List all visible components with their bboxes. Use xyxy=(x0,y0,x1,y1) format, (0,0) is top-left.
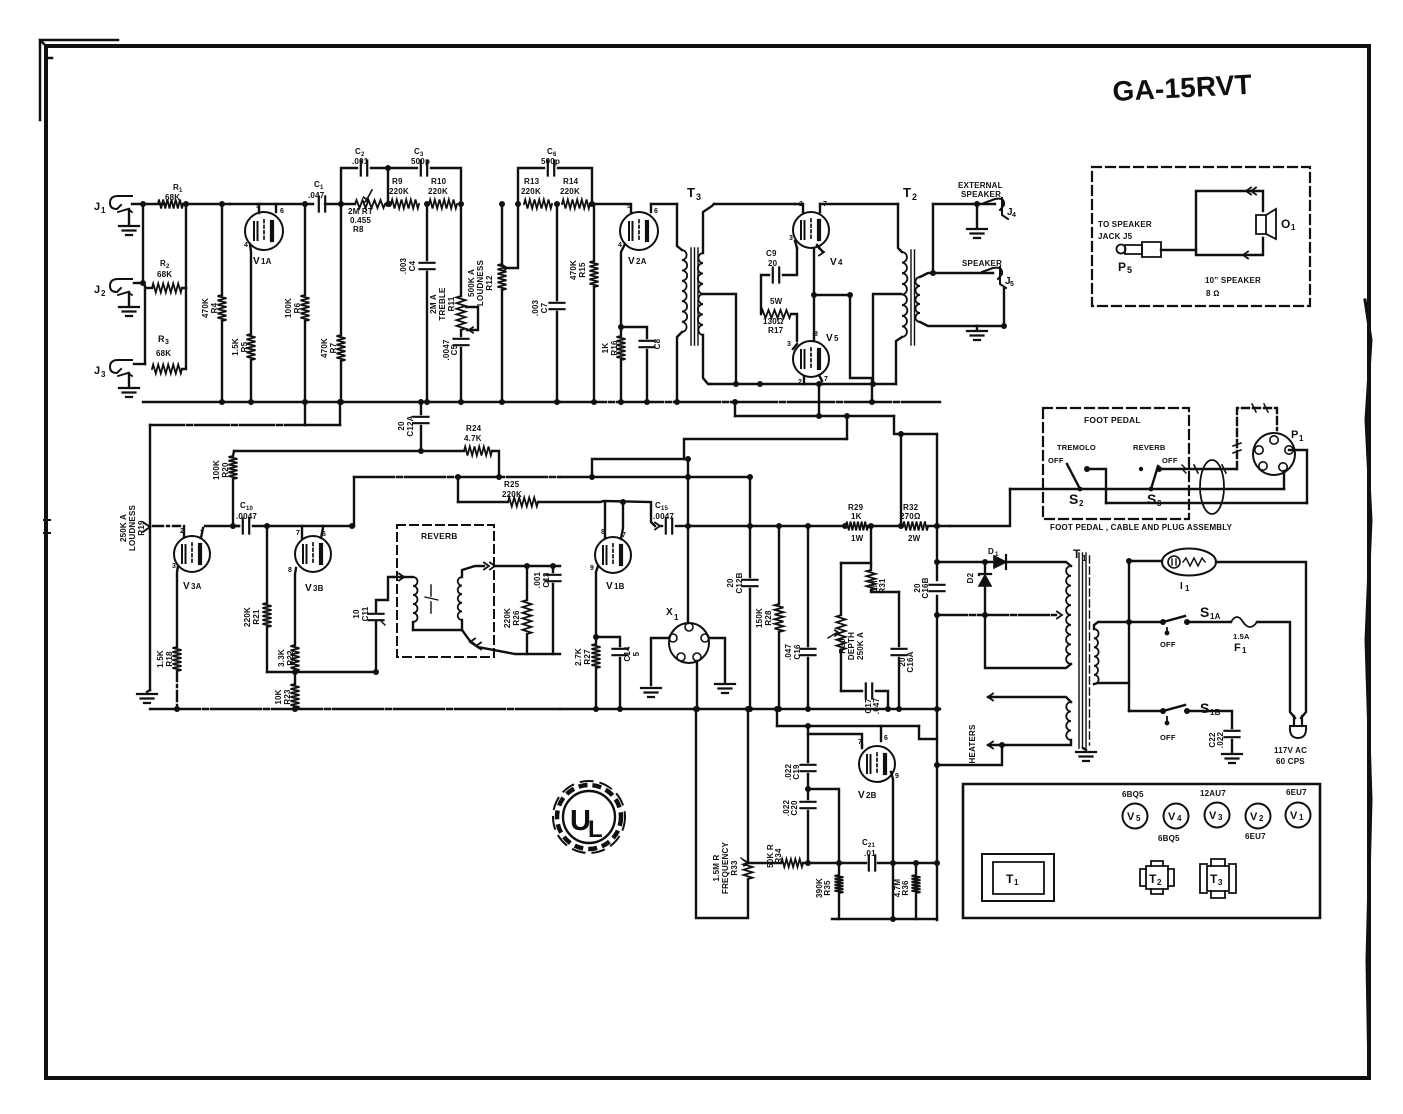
svg-text:250K A: 250K A xyxy=(856,632,865,660)
svg-text:2.7K: 2.7K xyxy=(574,648,583,666)
svg-text:D2: D2 xyxy=(966,572,975,583)
wire xyxy=(832,918,937,920)
label 10in speaker xyxy=(1205,276,1261,298)
svg-text:9: 9 xyxy=(895,773,899,780)
label off xyxy=(1162,456,1178,465)
svg-text:5: 5 xyxy=(834,334,839,343)
label heaters xyxy=(968,724,977,763)
wire xyxy=(1283,471,1285,489)
wire xyxy=(937,745,1002,765)
jack J5 xyxy=(982,267,1014,288)
resistor R23 xyxy=(274,671,300,712)
wire plate feed xyxy=(688,525,750,527)
svg-text:1: 1 xyxy=(1014,878,1019,887)
svg-text:C11: C11 xyxy=(361,606,370,621)
label foot pedal xyxy=(1084,415,1141,425)
svg-text:68K: 68K xyxy=(165,193,180,202)
label V2B xyxy=(0,0,1,1)
capacitor C16B xyxy=(913,577,945,598)
svg-text:V: V xyxy=(1209,810,1217,822)
resistor R5 xyxy=(231,334,256,360)
plug P5 xyxy=(1117,242,1162,275)
pin 9 xyxy=(890,772,899,922)
svg-text:7: 7 xyxy=(824,376,828,383)
reverb out top xyxy=(462,563,560,578)
pin 2 xyxy=(798,377,804,386)
wire T2 secondary top xyxy=(920,270,936,277)
triode V2A xyxy=(620,212,658,267)
svg-text:470K: 470K xyxy=(201,298,210,318)
ground xyxy=(1076,748,1096,761)
svg-text:20: 20 xyxy=(768,259,778,268)
tube location V1 xyxy=(1286,803,1311,828)
ground xyxy=(137,690,157,703)
wire xyxy=(950,489,1010,526)
svg-text:R21: R21 xyxy=(252,609,261,625)
svg-text:C19: C19 xyxy=(792,764,801,780)
svg-text:R34: R34 xyxy=(774,848,783,864)
wire xyxy=(808,789,842,866)
wire X1 top xyxy=(687,526,689,623)
pin 7 xyxy=(296,526,302,538)
reverb coil L xyxy=(404,577,418,630)
svg-text:4: 4 xyxy=(618,242,622,249)
svg-text:R16: R16 xyxy=(610,340,619,356)
label 117V AC xyxy=(1274,746,1307,766)
resistor R35 xyxy=(815,863,844,919)
svg-text:R6: R6 xyxy=(293,302,302,313)
wire V3A plate xyxy=(205,525,239,527)
svg-text:130: 130 xyxy=(763,317,777,326)
svg-text:R18: R18 xyxy=(165,651,174,667)
svg-text:J: J xyxy=(94,201,100,213)
label reverb xyxy=(1133,443,1166,452)
svg-text:1B: 1B xyxy=(1210,708,1221,717)
svg-text:100K: 100K xyxy=(212,460,221,480)
svg-text:T: T xyxy=(1210,872,1218,886)
resistor R28 xyxy=(755,523,784,712)
svg-text:2M A: 2M A xyxy=(429,294,438,314)
svg-text:68K: 68K xyxy=(157,270,172,279)
wire lower xyxy=(1106,502,1307,504)
wire xyxy=(748,862,781,864)
svg-text:5: 5 xyxy=(1136,814,1141,823)
svg-text:V: V xyxy=(858,790,865,801)
svg-text:3: 3 xyxy=(787,341,791,348)
svg-text:10K: 10K xyxy=(274,689,283,704)
svg-text:C20: C20 xyxy=(790,800,799,816)
triode V3B xyxy=(295,536,331,594)
svg-text:R9: R9 xyxy=(392,177,403,186)
pin 4 xyxy=(618,242,625,336)
svg-text:R13: R13 xyxy=(524,177,540,186)
svg-text:60 CPS: 60 CPS xyxy=(1276,757,1305,766)
svg-text:S: S xyxy=(1200,700,1210,716)
svg-text:R33: R33 xyxy=(730,860,739,876)
capacitor C1 xyxy=(308,180,325,212)
wire grid V3A xyxy=(153,525,180,527)
svg-text:470K: 470K xyxy=(569,260,578,280)
wire xyxy=(732,399,738,416)
svg-text:500p: 500p xyxy=(411,157,430,166)
svg-text:2: 2 xyxy=(912,192,917,202)
svg-text:20: 20 xyxy=(726,578,735,588)
svg-text:1: 1 xyxy=(1185,584,1190,593)
wire xyxy=(325,201,355,207)
ground xyxy=(967,326,987,340)
tube chart box xyxy=(963,784,1320,918)
triode V3A xyxy=(174,536,210,592)
svg-text:I: I xyxy=(1180,581,1183,592)
wire xyxy=(750,525,845,527)
svg-text:1: 1 xyxy=(101,206,106,215)
wire primary top xyxy=(1094,619,1132,629)
svg-text:V: V xyxy=(826,333,833,344)
wire xyxy=(850,295,875,405)
svg-text:1.5M R: 1.5M R xyxy=(712,854,721,881)
svg-text:2: 2 xyxy=(1079,499,1084,508)
svg-text:250K A: 250K A xyxy=(119,514,128,542)
jack J4 xyxy=(984,198,1016,219)
resistor R24 xyxy=(464,424,492,456)
resistor R17 xyxy=(761,297,797,341)
svg-text:LOUDNESS: LOUDNESS xyxy=(476,260,485,307)
tube location V3 xyxy=(1205,803,1230,828)
wire xyxy=(150,399,343,425)
capacitor C16 xyxy=(784,523,816,712)
svg-text:1: 1 xyxy=(1299,813,1304,822)
wire xyxy=(868,523,904,529)
resistor R26 xyxy=(503,566,532,654)
svg-text:V: V xyxy=(606,581,613,592)
svg-text:.003: .003 xyxy=(531,299,540,316)
resistor R13 xyxy=(521,177,552,209)
wire xyxy=(538,501,655,526)
svg-text:1: 1 xyxy=(1242,646,1247,655)
diode D1 xyxy=(937,547,1071,569)
resistor R15 xyxy=(569,204,599,405)
svg-text:T: T xyxy=(1006,872,1014,886)
triode V2B xyxy=(858,746,895,801)
svg-text:1A: 1A xyxy=(1210,612,1221,621)
reverb core xyxy=(425,585,438,613)
svg-text:1W: 1W xyxy=(851,534,864,543)
resistor R25 xyxy=(458,480,538,507)
resistor R6 xyxy=(284,201,310,405)
pin 3 xyxy=(172,563,178,647)
pin 6 xyxy=(651,204,658,215)
svg-text:3: 3 xyxy=(172,563,176,570)
potentiometer R30 xyxy=(828,563,865,691)
jack J1 xyxy=(94,196,132,215)
potentiometer R11 treble xyxy=(429,201,478,333)
svg-text:FOOT PEDAL: FOOT PEDAL xyxy=(1084,415,1141,425)
svg-text:7: 7 xyxy=(296,530,300,537)
wire S3 contact xyxy=(1159,465,1237,473)
svg-text:1: 1 xyxy=(995,552,999,558)
svg-text:JACK J5: JACK J5 xyxy=(1098,232,1133,241)
resistor R34 xyxy=(766,844,803,868)
capacitor C5 xyxy=(442,330,469,405)
svg-text:10: 10 xyxy=(352,609,361,619)
transformer T2 xyxy=(898,185,920,345)
svg-text:500p: 500p xyxy=(541,157,560,166)
AC plug xyxy=(1290,716,1306,738)
resistor R20 xyxy=(212,451,238,526)
ground xyxy=(1222,754,1242,763)
svg-text:R32: R32 xyxy=(903,503,919,512)
capacitor C6 xyxy=(518,147,592,204)
svg-text:6BQ5: 6BQ5 xyxy=(1158,834,1180,843)
pentode V4 xyxy=(793,212,843,268)
svg-text:1: 1 xyxy=(1291,223,1296,232)
tube location V2 xyxy=(1246,804,1271,829)
wire xyxy=(714,203,795,205)
svg-text:P: P xyxy=(1291,429,1299,441)
capacitor C17 xyxy=(841,684,891,715)
svg-text:R10: R10 xyxy=(431,177,447,186)
wire xyxy=(183,203,230,205)
triode V1A xyxy=(245,212,283,267)
UL logo xyxy=(553,781,625,853)
resistor R29 xyxy=(842,503,868,543)
svg-text:.001: .001 xyxy=(533,571,542,588)
svg-text:6BQ5: 6BQ5 xyxy=(1122,790,1144,799)
wire xyxy=(1257,622,1295,718)
cable xyxy=(1200,460,1224,514)
svg-text:220K: 220K xyxy=(560,187,580,196)
capacitor C14 xyxy=(596,637,641,712)
svg-text:4: 4 xyxy=(1177,814,1182,823)
svg-text:R12: R12 xyxy=(485,275,494,291)
pilot lamp I1 xyxy=(1129,549,1216,594)
svg-text:V: V xyxy=(253,256,260,267)
wire xyxy=(128,292,130,305)
svg-text:R7: R7 xyxy=(329,342,338,353)
svg-text:6: 6 xyxy=(884,735,888,742)
svg-text:220K: 220K xyxy=(428,187,448,196)
svg-text:R28: R28 xyxy=(764,610,773,626)
svg-text:5W: 5W xyxy=(770,297,783,306)
svg-text:T: T xyxy=(687,185,695,200)
pin 4 xyxy=(244,242,251,334)
wire xyxy=(267,523,355,529)
capacitor C7 xyxy=(531,204,565,405)
speaker assembly box xyxy=(1092,167,1310,306)
svg-text:TREBLE: TREBLE xyxy=(438,287,447,321)
wire speaker loop xyxy=(1161,191,1263,255)
diode D2 xyxy=(966,562,991,618)
capacitor C11 xyxy=(352,577,394,672)
svg-text:5: 5 xyxy=(632,651,641,656)
wire B+ rail xyxy=(934,434,940,920)
wire T2 secondary bottom xyxy=(920,287,1007,329)
svg-text:8 Ω: 8 Ω xyxy=(1206,289,1219,298)
svg-text:4: 4 xyxy=(244,242,248,249)
svg-text:R20: R20 xyxy=(221,462,230,478)
svg-text:T: T xyxy=(1073,547,1081,561)
svg-text:1B: 1B xyxy=(614,582,625,591)
wire xyxy=(814,292,853,298)
wire T2 tap xyxy=(870,294,901,387)
svg-text:4.7K: 4.7K xyxy=(464,434,482,443)
svg-text:TO SPEAKER: TO SPEAKER xyxy=(1098,220,1152,229)
svg-text:.003: .003 xyxy=(399,257,408,274)
wire xyxy=(132,201,165,207)
svg-text:5: 5 xyxy=(1010,281,1014,288)
svg-text:C14: C14 xyxy=(623,646,632,662)
svg-text:V: V xyxy=(628,256,635,267)
svg-text:J: J xyxy=(94,284,100,296)
foot pedal box xyxy=(1043,408,1189,519)
wire xyxy=(774,706,780,726)
fuse F1 xyxy=(1187,617,1257,655)
svg-text:3.3K: 3.3K xyxy=(277,649,286,667)
svg-text:1A: 1A xyxy=(261,257,272,266)
wire HV center tap xyxy=(937,612,1062,619)
wire xyxy=(230,203,313,205)
svg-text:1.5A: 1.5A xyxy=(1233,632,1250,641)
resistor R22 xyxy=(277,645,300,675)
svg-text:X: X xyxy=(666,607,673,618)
svg-text:2: 2 xyxy=(101,289,106,298)
wire xyxy=(128,373,130,386)
pin 7 xyxy=(858,739,862,748)
ground xyxy=(119,388,139,397)
svg-text:C7: C7 xyxy=(540,302,549,313)
svg-text:470K: 470K xyxy=(320,338,329,358)
svg-text:V: V xyxy=(183,581,190,592)
svg-text:REVERB: REVERB xyxy=(1133,443,1166,452)
svg-text:C12B: C12B xyxy=(735,572,744,593)
wire xyxy=(710,381,804,387)
speaker O1 xyxy=(1256,209,1296,239)
pin 9 xyxy=(590,565,598,644)
svg-text:F: F xyxy=(1234,642,1241,654)
pin 5 xyxy=(627,203,631,213)
svg-text:O: O xyxy=(1281,217,1291,231)
svg-text:C4: C4 xyxy=(408,260,417,271)
potentiometer R12 loudness xyxy=(467,201,521,405)
wire xyxy=(919,726,937,739)
wire pivots xyxy=(1010,488,1284,490)
svg-text:R5: R5 xyxy=(240,341,249,352)
wire xyxy=(457,477,459,502)
svg-text:T: T xyxy=(1149,872,1157,886)
wire xyxy=(492,451,499,477)
svg-text:R17: R17 xyxy=(768,326,784,335)
node A xyxy=(142,204,144,283)
svg-text:20: 20 xyxy=(397,421,406,431)
wire xyxy=(234,450,464,452)
wire to speaker jack xyxy=(933,272,993,274)
svg-text:R: R xyxy=(158,334,165,344)
resistor R16 xyxy=(601,336,626,405)
wire V4 plate xyxy=(820,203,898,205)
svg-text:.0047: .0047 xyxy=(236,512,257,521)
wire xyxy=(822,337,902,384)
svg-text:1.5K: 1.5K xyxy=(231,338,240,356)
jack J2 xyxy=(94,279,132,298)
reverb box xyxy=(397,525,494,657)
svg-text:S: S xyxy=(1069,491,1079,507)
capacitor C18A xyxy=(892,592,916,712)
potentiometer R19 xyxy=(119,425,150,690)
svg-text:220K: 220K xyxy=(502,490,522,499)
svg-text:OFF: OFF xyxy=(1162,456,1178,465)
svg-text:2A: 2A xyxy=(636,257,647,266)
svg-text:V: V xyxy=(305,583,312,594)
wire T3 secondary bottom xyxy=(703,335,710,384)
transformer T1 xyxy=(1066,547,1099,748)
jack J3 xyxy=(94,360,132,379)
svg-text:C5: C5 xyxy=(450,344,459,355)
svg-text:C9: C9 xyxy=(766,249,777,258)
label to speaker jack xyxy=(1098,220,1152,241)
wire xyxy=(841,523,874,563)
wire xyxy=(878,862,937,864)
pin 7 xyxy=(620,499,626,539)
reverb input arrow xyxy=(394,574,404,581)
svg-text:R8: R8 xyxy=(353,225,364,234)
wire shield xyxy=(1233,404,1277,469)
wire to ext speaker xyxy=(933,203,995,205)
pin 5 xyxy=(256,203,260,213)
label speaker xyxy=(962,259,1002,268)
svg-text:L: L xyxy=(588,816,603,843)
svg-text:2: 2 xyxy=(798,379,802,386)
svg-text:V: V xyxy=(1250,811,1258,823)
svg-text:3A: 3A xyxy=(191,582,202,591)
svg-text:R26: R26 xyxy=(512,610,521,626)
svg-text:R14: R14 xyxy=(563,177,579,186)
svg-text:EXTERNAL: EXTERNAL xyxy=(958,181,1003,190)
ground xyxy=(641,688,661,697)
wire xyxy=(128,209,130,224)
svg-text:2M RT: 2M RT xyxy=(348,207,373,216)
pin 7 xyxy=(200,528,204,538)
svg-text:V: V xyxy=(830,257,837,268)
svg-text:R31: R31 xyxy=(878,578,887,594)
polarity arrows xyxy=(1243,188,1256,259)
chart T1 xyxy=(982,854,1054,901)
wire xyxy=(685,456,691,526)
svg-text:R24: R24 xyxy=(466,424,482,433)
wire S2 contact xyxy=(1087,469,1106,503)
svg-text:.022: .022 xyxy=(1216,731,1225,748)
svg-text:R36: R36 xyxy=(901,880,910,896)
svg-text:1K: 1K xyxy=(601,343,610,354)
wire xyxy=(1126,558,1132,711)
label 12AU7 xyxy=(1200,789,1226,798)
svg-text:1.5K: 1.5K xyxy=(156,650,165,668)
pin 6 xyxy=(276,204,284,215)
wire xyxy=(898,431,904,526)
wire heater bottom xyxy=(988,740,1071,749)
reverb out bottom xyxy=(413,630,560,654)
resistor R3 xyxy=(152,334,182,374)
capacitor C8 xyxy=(618,324,662,405)
potentiometer R33 xyxy=(693,706,753,918)
wire heater top xyxy=(988,694,1071,703)
resistor R18 xyxy=(156,647,182,712)
wire xyxy=(592,203,629,205)
wire xyxy=(651,203,677,205)
svg-text:100K: 100K xyxy=(284,298,293,318)
svg-text:OFF: OFF xyxy=(1160,640,1176,649)
svg-text:R11: R11 xyxy=(447,296,456,311)
label reverb xyxy=(421,531,458,541)
